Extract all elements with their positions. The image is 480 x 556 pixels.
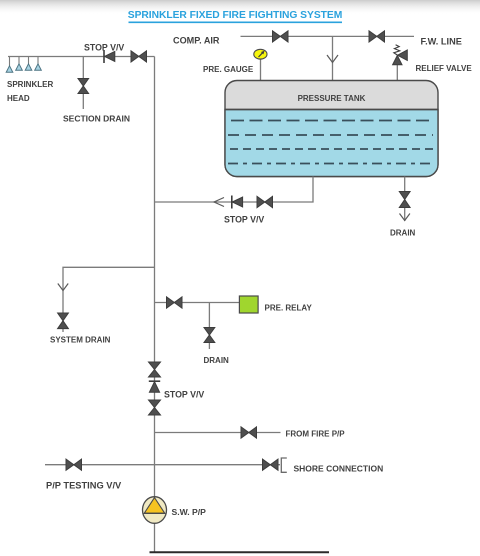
check valve riser (flow up) bbox=[149, 381, 160, 392]
wire: from fire pump branch bbox=[155, 432, 281, 434]
svg-text:STOP V/V: STOP V/V bbox=[224, 215, 264, 225]
pressure tank shell bbox=[225, 81, 438, 177]
valve tank drain (gate, vertical) bbox=[399, 192, 410, 208]
valve comp air (gate, horizontal) bbox=[273, 31, 289, 42]
wire: sprinkler drop 4 bbox=[37, 57, 39, 65]
svg-text:PRE. RELAY: PRE. RELAY bbox=[265, 304, 313, 313]
arrow down tank drain bbox=[400, 214, 410, 221]
sea suction baseline bbox=[150, 551, 330, 553]
valve stop v/v (gate, horizontal) bbox=[131, 51, 147, 62]
wire: sprinkler drop 1 bbox=[9, 57, 11, 67]
arrow down into tank bbox=[327, 55, 338, 63]
wire: sprinkler drop 2 bbox=[18, 57, 20, 65]
wire: compressed air line bbox=[241, 35, 415, 37]
svg-text:DRAIN: DRAIN bbox=[390, 229, 416, 238]
svg-text:SHORE CONNECTION: SHORE CONNECTION bbox=[294, 464, 384, 474]
sprinkler head 4 bbox=[35, 64, 42, 71]
valve section drain (gate, vertical) bbox=[78, 79, 89, 94]
valve outlet stop (gate, horizontal) bbox=[257, 196, 273, 207]
pressure gauge bbox=[254, 49, 267, 59]
svg-text:COMP. AIR: COMP. AIR bbox=[173, 36, 220, 46]
wire: relief valve stem bbox=[396, 63, 398, 80]
sprinkler head 2 bbox=[16, 64, 23, 71]
svg-text:S.W. P/P: S.W. P/P bbox=[172, 507, 207, 517]
wire: shore connection line bbox=[45, 464, 280, 466]
svg-text:SPRINKLER: SPRINKLER bbox=[7, 80, 53, 89]
water level dashes row 2 bbox=[228, 134, 433, 136]
svg-text:HEAD: HEAD bbox=[7, 94, 30, 103]
valve riser stop lower (gate, vertical) bbox=[149, 400, 161, 415]
valve p/p testing (gate, horizontal) bbox=[66, 459, 82, 470]
valve system drain (gate, vertical) bbox=[58, 313, 69, 329]
pressure relay bbox=[239, 296, 258, 313]
wire: section drain branch bbox=[82, 57, 84, 110]
svg-text:STOP V/V: STOP V/V bbox=[164, 390, 204, 400]
svg-text:SYSTEM DRAIN: SYSTEM DRAIN bbox=[50, 336, 111, 345]
relief valve bbox=[393, 50, 408, 65]
wire: air inlet drop into tank bbox=[332, 36, 334, 80]
svg-text:DRAIN: DRAIN bbox=[204, 356, 230, 365]
valve relay branch (gate, horizontal) bbox=[167, 297, 183, 308]
valve drain mid (gate, vertical) bbox=[204, 328, 215, 343]
water level dashes row 3 bbox=[230, 148, 433, 150]
check valve (stop v/v line, flow left) bbox=[104, 50, 115, 63]
check valve outlet (flow left) bbox=[232, 196, 243, 209]
sprinkler head 1 bbox=[6, 66, 13, 73]
valve from fire (gate, horizontal) bbox=[241, 427, 257, 438]
wire: sprinkler drop 3 bbox=[28, 57, 30, 65]
sprinkler head 3 bbox=[25, 64, 32, 71]
svg-text:FROM FIRE P/P: FROM FIRE P/P bbox=[286, 430, 346, 439]
svg-text:P/P TESTING V/V: P/P TESTING V/V bbox=[46, 481, 122, 491]
wire: tank outlet to riser bbox=[155, 177, 314, 203]
shore connection bracket bbox=[281, 458, 287, 472]
wire: drain drop off relay branch bbox=[208, 303, 210, 350]
wire: main riser bbox=[154, 57, 156, 553]
arrow down system drain bbox=[58, 284, 68, 291]
svg-text:F.W. LINE: F.W. LINE bbox=[421, 37, 462, 47]
svg-text:PRESSURE TANK: PRESSURE TANK bbox=[298, 94, 366, 103]
water level dashes row 4 bbox=[228, 163, 433, 165]
pump S.W. P/P bbox=[143, 497, 167, 524]
valve riser stop upper (gate, vertical) bbox=[149, 362, 161, 377]
svg-text:SECTION DRAIN: SECTION DRAIN bbox=[63, 114, 130, 124]
valve shore connection (gate, horizontal) bbox=[263, 459, 279, 470]
wire: tank drain drop bbox=[404, 177, 406, 222]
svg-text:SPRINKLER FIXED FIRE FIGHTING: SPRINKLER FIXED FIRE FIGHTING SYSTEM bbox=[128, 10, 342, 21]
arrow left on outlet pipe bbox=[214, 198, 224, 207]
wire: sprinkler header pipe bbox=[8, 56, 155, 58]
wire: gauge stem bbox=[260, 58, 262, 80]
wire: system drain branch bbox=[63, 267, 155, 332]
water level dashes row 1 bbox=[231, 120, 433, 122]
valve f.w. line (gate, horizontal) bbox=[369, 31, 385, 42]
svg-text:PRE. GAUGE: PRE. GAUGE bbox=[203, 65, 254, 74]
relief valve spring bbox=[394, 45, 400, 55]
svg-text:RELIEF VALVE: RELIEF VALVE bbox=[416, 64, 473, 73]
wire: pressure relay branch bbox=[155, 302, 240, 304]
svg-text:STOP V/V: STOP V/V bbox=[84, 43, 124, 53]
